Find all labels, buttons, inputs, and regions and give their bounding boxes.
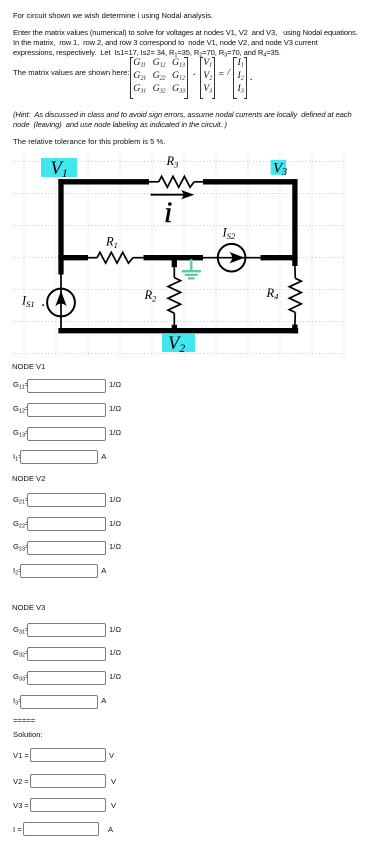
svg-text:i: i <box>164 196 172 229</box>
svg-text:R4: R4 <box>266 286 280 302</box>
svg-text:IS2: IS2 <box>222 225 236 241</box>
svg-text:R1: R1 <box>105 235 118 251</box>
svg-text:R3: R3 <box>166 154 179 170</box>
svg-text:IS1: IS1 <box>21 293 35 309</box>
svg-text:R2: R2 <box>144 288 158 304</box>
